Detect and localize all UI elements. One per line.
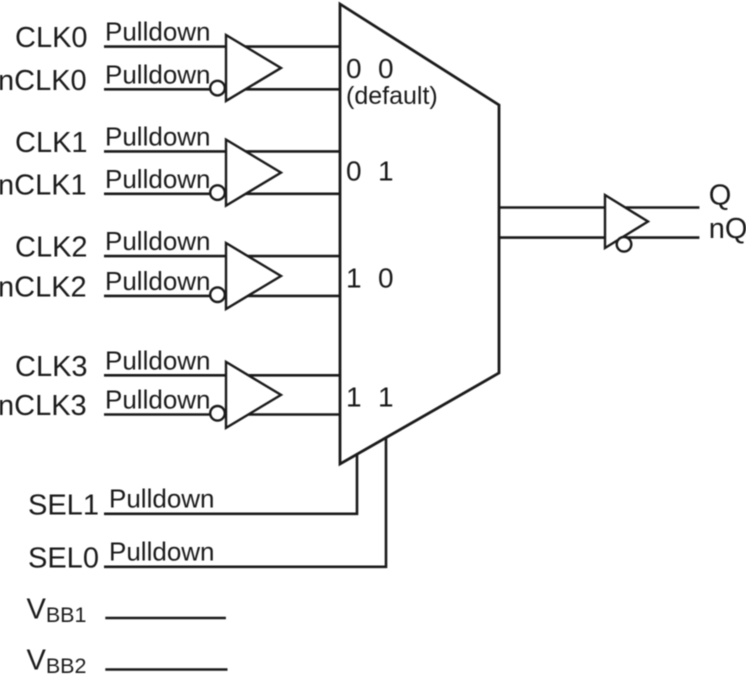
svg-text:Pulldown: Pulldown <box>105 266 211 296</box>
svg-text:Pulldown: Pulldown <box>105 164 211 194</box>
svg-text:Pulldown: Pulldown <box>109 484 215 514</box>
svg-text:nCLK2: nCLK2 <box>0 272 87 304</box>
svg-text:VBB1: VBB1 <box>27 594 87 627</box>
input buffer U4 (CLK3/nCLK3) <box>210 362 281 428</box>
svg-text:nCLK0: nCLK0 <box>0 65 87 97</box>
svg-text:Pulldown: Pulldown <box>109 537 215 567</box>
svg-text:(default): (default) <box>346 82 438 110</box>
svg-text:Pulldown: Pulldown <box>105 121 211 151</box>
svg-text:CLK0: CLK0 <box>15 22 88 54</box>
wire VBB2 stub <box>105 668 227 671</box>
wire nCLK2 input to mux <box>104 295 340 298</box>
svg-text:nQ: nQ <box>709 213 746 245</box>
svg-text:SEL0: SEL0 <box>28 542 99 574</box>
wire nCLK3 input to mux <box>104 413 340 416</box>
svg-text:nCLK1: nCLK1 <box>0 169 87 201</box>
wire VBB1 stub <box>105 617 226 620</box>
input buffer U1 (CLK0/nCLK0) <box>210 35 281 101</box>
mux M1 <box>340 4 499 464</box>
svg-text:Pulldown: Pulldown <box>105 345 211 375</box>
wire CLK3 input to mux <box>104 374 340 377</box>
svg-text:CLK2: CLK2 <box>15 232 88 264</box>
svg-text:SEL1: SEL1 <box>28 489 99 521</box>
svg-text:Pulldown: Pulldown <box>105 17 211 47</box>
svg-text:Pulldown: Pulldown <box>105 59 211 89</box>
wire nCLK1 input to mux <box>104 193 340 196</box>
svg-text:Q: Q <box>709 179 732 211</box>
wire nCLK0 input to mux <box>104 88 340 91</box>
wire CLK0 input to mux <box>104 45 340 48</box>
input buffer U2 (CLK1/nCLK1) <box>210 140 281 206</box>
svg-text:VBB2: VBB2 <box>27 645 87 674</box>
input buffer U3 (CLK2/nCLK2) <box>210 243 281 309</box>
wire CLK1 input to mux <box>104 150 340 153</box>
svg-text:CLK1: CLK1 <box>15 127 88 159</box>
output buffer U5 (Q/nQ) <box>605 195 648 252</box>
svg-text:Pulldown: Pulldown <box>105 226 211 256</box>
svg-text:Pulldown: Pulldown <box>105 385 211 415</box>
wire nQ output <box>499 236 699 239</box>
wire Q output <box>499 206 699 209</box>
svg-text:nCLK3: nCLK3 <box>0 390 87 422</box>
wire CLK2 input to mux <box>104 255 340 258</box>
wire SEL1 to mux <box>104 453 357 514</box>
svg-text:CLK3: CLK3 <box>15 351 88 383</box>
wire SEL0 to mux <box>104 437 386 567</box>
